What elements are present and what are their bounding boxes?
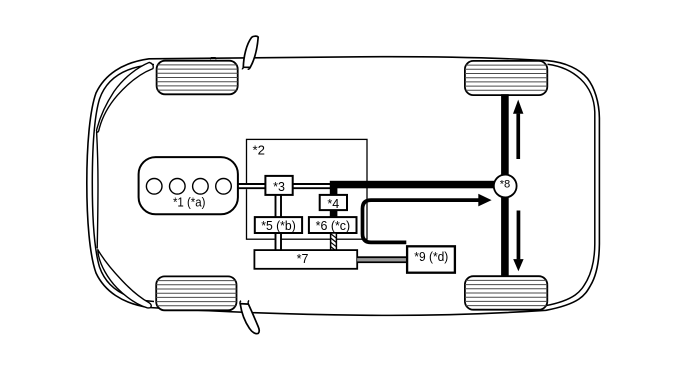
svg-text:*1 (*a): *1 (*a) — [173, 195, 206, 209]
box *7 — [254, 250, 357, 269]
svg-text:*5 (*b): *5 (*b) — [261, 219, 296, 233]
roof notch — [210, 58, 216, 60]
rear axle — [501, 94, 509, 276]
headlight leaf top-left — [97, 62, 154, 132]
box *6 — [309, 217, 357, 233]
svg-text:*7: *7 — [297, 252, 309, 266]
box *4 — [320, 195, 347, 210]
propeller shaft thick bar — [330, 181, 509, 189]
rear-right wheel — [465, 276, 547, 310]
hatched link *6 to *7 — [331, 233, 337, 251]
svg-text:*3: *3 — [273, 180, 285, 194]
box *9 — [407, 246, 455, 272]
cylinder 3 — [193, 179, 209, 195]
down arrow — [513, 211, 523, 272]
right mirror (bottom) — [240, 300, 259, 333]
svg-text:*9 (*d): *9 (*d) — [414, 250, 448, 264]
left mirror — [242, 36, 258, 69]
box *2 — [247, 139, 368, 239]
link bar to *4 — [330, 188, 338, 196]
front-left wheel — [157, 61, 238, 95]
cylinder 1 — [146, 179, 162, 195]
node *8 — [494, 175, 517, 198]
cylinder 2 — [170, 179, 186, 195]
up arrow — [513, 100, 523, 159]
svg-text:*2: *2 — [253, 142, 265, 157]
connector *7 to *9 — [357, 256, 407, 263]
box *5 — [255, 217, 302, 233]
svg-text:*8: *8 — [500, 178, 511, 190]
rear inner contour — [545, 64, 595, 306]
flow arrow — [363, 194, 492, 243]
front inner contour — [92, 65, 154, 302]
front-right wheel — [465, 61, 547, 95]
shaft *3 to *5 — [275, 195, 282, 217]
svg-text:*6 (*c): *6 (*c) — [316, 219, 351, 233]
box *3 — [265, 176, 292, 195]
hood edge arc — [97, 132, 98, 248]
shaft *5 to *7 — [275, 233, 282, 250]
headlight leaf bottom-left — [98, 250, 151, 308]
svg-text:*4: *4 — [327, 197, 339, 211]
car body outer outline — [87, 57, 600, 316]
shaft engine to *3 — [238, 183, 266, 189]
rear-left wheel — [156, 276, 236, 310]
shaft *3 to transfer — [293, 183, 332, 189]
engine *1 — [139, 157, 238, 214]
cylinder 4 — [216, 179, 232, 195]
link *4 to *6 — [330, 210, 338, 217]
